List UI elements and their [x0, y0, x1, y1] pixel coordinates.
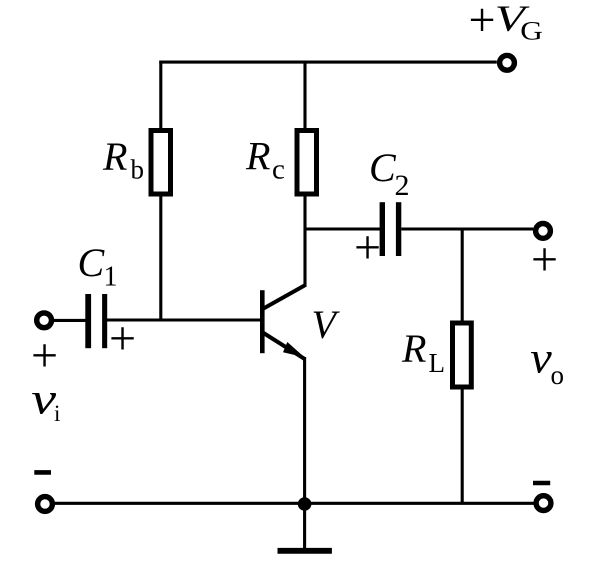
- wire Rb branch upper: [159, 61, 162, 129]
- svg-text:R: R: [401, 326, 426, 371]
- wire top rail: [159, 61, 497, 64]
- capacitor C1 plate left: [85, 294, 91, 348]
- capacitor C2 plate right: [396, 202, 401, 256]
- svg-text:v: v: [530, 334, 552, 383]
- wire RL branch lower: [461, 387, 464, 503]
- wire collector to C2: [304, 227, 381, 230]
- svg-text:R: R: [102, 134, 127, 179]
- wire Rc branch upper: [303, 61, 306, 129]
- svg-text:+: +: [469, 0, 496, 47]
- svg-text:+: +: [531, 233, 558, 286]
- svg-text:L: L: [429, 348, 446, 378]
- junction dot: [298, 497, 312, 511]
- transistor collector lead: [264, 286, 305, 309]
- resistor RL: [453, 323, 472, 387]
- resistor Rc: [297, 131, 317, 195]
- svg-text:R: R: [245, 134, 270, 179]
- transistor emitter lead: [264, 333, 305, 359]
- terminal input: [37, 313, 52, 328]
- terminal +VG: [500, 55, 515, 70]
- ground: [278, 548, 332, 554]
- capacitor C1 plate right: [102, 294, 107, 348]
- svg-text:o: o: [551, 360, 565, 390]
- label minus at output: [533, 481, 550, 486]
- wire collector vertical: [303, 196, 306, 287]
- terminal output: [536, 224, 551, 239]
- svg-text:c: c: [272, 154, 285, 186]
- svg-text:i: i: [54, 401, 60, 426]
- svg-text:C: C: [369, 145, 397, 190]
- wire emitter vertical: [303, 357, 306, 548]
- wire bottom rail: [54, 502, 535, 505]
- resistor Rb: [151, 131, 171, 195]
- wire base: [107, 318, 261, 321]
- transistor V base bar: [260, 290, 265, 353]
- svg-text:+: +: [354, 221, 381, 274]
- terminal bottom-right: [536, 496, 551, 511]
- wire input to C1: [52, 319, 86, 322]
- svg-text:C: C: [78, 240, 106, 285]
- wire C2 to output: [401, 227, 533, 230]
- transistor emitter arrow: [283, 342, 305, 357]
- wire Rb branch lower: [159, 196, 162, 320]
- svg-text:1: 1: [104, 262, 118, 293]
- wire RL branch upper: [461, 229, 464, 323]
- svg-text:2: 2: [395, 169, 410, 202]
- label minus at input: [34, 470, 51, 475]
- capacitor C2 plate left: [380, 202, 385, 256]
- terminal bottom-left: [38, 497, 53, 512]
- svg-text:b: b: [131, 155, 145, 185]
- svg-text:G: G: [520, 17, 543, 46]
